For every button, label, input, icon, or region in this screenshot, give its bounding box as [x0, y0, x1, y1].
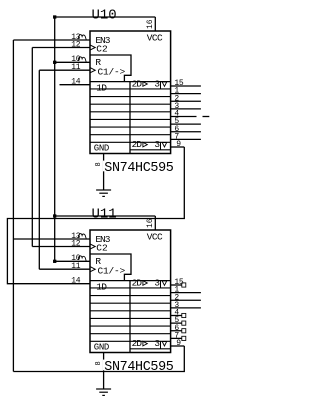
svg-text:8: 8 — [95, 361, 103, 365]
svg-text:U10: U10 — [92, 7, 117, 23]
svg-text:8: 8 — [95, 162, 103, 166]
svg-text:U11: U11 — [92, 206, 117, 222]
svg-text:1D: 1D — [96, 82, 107, 93]
svg-text:2D: 2D — [132, 139, 143, 150]
svg-text:C2: C2 — [96, 43, 108, 54]
svg-text:3: 3 — [154, 79, 160, 90]
svg-text:3: 3 — [154, 139, 160, 150]
svg-text:12: 12 — [71, 239, 81, 248]
svg-text:GND: GND — [94, 342, 109, 352]
svg-text:14: 14 — [71, 78, 81, 87]
svg-text:11: 11 — [71, 262, 81, 271]
svg-text:C2: C2 — [96, 242, 108, 253]
svg-text:GND: GND — [94, 143, 109, 153]
svg-text:VCC: VCC — [147, 32, 163, 43]
svg-text:VCC: VCC — [147, 231, 163, 242]
svg-text:16: 16 — [146, 19, 155, 29]
svg-text:3: 3 — [154, 278, 160, 289]
svg-text:C1/->: C1/-> — [98, 66, 126, 77]
svg-text:16: 16 — [146, 218, 155, 228]
svg-text:9: 9 — [176, 339, 181, 348]
svg-text:SN74HC595: SN74HC595 — [104, 161, 173, 176]
svg-text:11: 11 — [71, 63, 81, 72]
svg-text:C1/->: C1/-> — [98, 265, 126, 276]
svg-text:SN74HC595: SN74HC595 — [104, 360, 173, 375]
svg-text:12: 12 — [71, 40, 81, 49]
svg-text:1D: 1D — [96, 281, 107, 292]
svg-text:3: 3 — [154, 338, 160, 349]
svg-text:2D: 2D — [132, 338, 143, 349]
svg-text:9: 9 — [176, 140, 181, 149]
svg-text:2D: 2D — [132, 79, 143, 90]
svg-text:2D: 2D — [132, 278, 143, 289]
svg-text:14: 14 — [71, 277, 81, 286]
